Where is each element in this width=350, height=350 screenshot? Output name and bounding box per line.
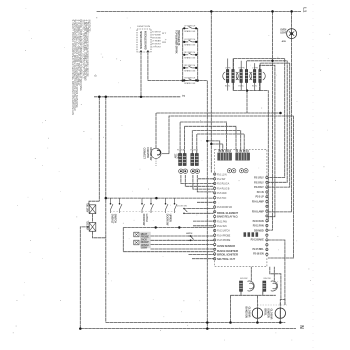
switch ladder (top burner switches) (183, 27, 198, 81)
wire switch ladder right rail (197, 28, 199, 80)
svg-text:UPPER: UPPER (169, 214, 173, 222)
wire broil igniter drop (279, 303, 281, 323)
svg-text:RR SWITCH: RR SWITCH (184, 65, 196, 67)
svg-text:RF SWITCH: RF SWITCH (184, 52, 196, 54)
wire plug pin row 4 (197, 175, 213, 192)
wire pin row 7 stub (197, 201, 214, 203)
wire bake igniter drop (256, 295, 258, 322)
node bus B V1 (98, 96, 101, 99)
wire connector feed 2 (211, 144, 223, 151)
wire plug lead 2 (185, 126, 236, 153)
svg-text:1100W: 1100W (141, 247, 148, 250)
module pin labels (152, 32, 167, 49)
svg-text:SPARK IGN: SPARK IGN (184, 30, 196, 33)
svg-text:PLUG B: PLUG B (191, 150, 199, 152)
door switch left (177, 205, 188, 214)
svg-text:P2-6 LAMP: P2-6 LAMP (252, 201, 264, 204)
control board relay rects (244, 232, 259, 237)
control board pin labels (217, 174, 264, 261)
svg-text:P1-12 IGN: P1-12 IGN (217, 226, 227, 228)
lamp oven light (280, 29, 296, 43)
wire right riser to pin (268, 240, 285, 305)
svg-text:DSI MOD: DSI MOD (254, 229, 264, 232)
svg-text:N: N (298, 325, 304, 329)
wire ladder return riser (206, 81, 208, 323)
control board dashed box (215, 149, 267, 266)
svg-text:LATCH: LATCH (186, 232, 193, 235)
svg-text:P1-15 PROBE: P1-15 PROBE (217, 240, 231, 242)
broil igniter (263, 308, 285, 320)
svg-text:RT PR: RT PR (239, 67, 245, 69)
node lower bus link top (206, 321, 209, 324)
plug block outside group 1 (179, 154, 188, 174)
notes text block (rotated service notes) (71, 20, 91, 115)
svg-text:P1-5 GND: P1-5 GND (217, 193, 227, 195)
wire connector feed from riser (207, 141, 219, 151)
fuse 1 (86, 203, 96, 214)
wire V2 long (105, 97, 107, 323)
svg-text:GROUND: GROUND (152, 38, 161, 40)
wire probe loop left (122, 228, 124, 252)
svg-text:OVEN SENSOR: OVEN SENSOR (217, 246, 236, 248)
wire branch bottom return (93, 231, 106, 238)
wire pin row 18 stub (192, 258, 214, 260)
svg-text:LF SWITCH: LF SWITCH (184, 25, 196, 27)
wire probe row 4 (151, 248, 214, 250)
svg-text:GLO-BAR: GLO-BAR (269, 309, 273, 320)
svg-text:P2-16 IGN: P2-16 IGN (253, 253, 264, 256)
wire bus B (94, 96, 180, 98)
svg-text:SPARK IGN: SPARK IGN (184, 44, 196, 47)
wire switch ladder left rail (182, 28, 184, 80)
spark igniter group 2 (236, 70, 251, 83)
wire L1 drop to control connector (210, 11, 212, 172)
wire igniter loop (280, 300, 285, 306)
svg-text:TCO 250F: TCO 250F (86, 221, 89, 231)
wire pin row 17 stub (189, 254, 214, 256)
svg-text:LIGHT: LIGHT (280, 32, 287, 34)
wire loop bottom riser (260, 91, 269, 222)
node bus B module (140, 96, 143, 99)
wire plug lead 1 (180, 122, 227, 154)
plug block inside group 2 (236, 150, 250, 173)
wire plug pin row 2 (185, 175, 213, 186)
svg-text:>: > (165, 37, 167, 41)
svg-text:P2-8 LAMP: P2-8 LAMP (252, 210, 264, 213)
svg-text:P1-11 FAN: P1-11 FAN (217, 220, 227, 223)
wire branch to neutral riser (80, 227, 89, 329)
node L1-bus right (271, 10, 274, 13)
svg-text:GLO-BAR: GLO-BAR (247, 307, 251, 318)
wire fan feed (156, 113, 281, 148)
svg-text:MODULE BOARD: MODULE BOARD (143, 31, 146, 50)
svg-text:SWITCH: SWITCH (114, 214, 118, 223)
node ladder left foot (182, 79, 184, 81)
svg-text:P2-4 N: P2-4 N (257, 191, 264, 194)
thermostat switch group 2 (141, 198, 153, 226)
svg-text:LT REAR: LT REAR (152, 40, 162, 43)
svg-text:SPARK IGN: SPARK IGN (184, 56, 196, 59)
svg-text:DOOR SW: DOOR SW (177, 205, 187, 207)
node ladder right foot (197, 79, 199, 81)
wire relay bus 2 (247, 60, 287, 62)
svg-text:BROIL IGNITER: BROIL IGNITER (217, 254, 238, 257)
ladder row labels (184, 25, 196, 85)
wire plug pin row 3 (193, 175, 214, 189)
switch row 1 (183, 27, 198, 29)
wire module pin 2 drop (147, 52, 149, 81)
wire probe bus top (123, 227, 213, 229)
fuse 2 (86, 221, 96, 232)
svg-text:115V: 115V (174, 154, 177, 159)
node probe bus b (178, 226, 180, 228)
node branch tap (87, 226, 89, 228)
svg-text:IGNITION: IGNITION (137, 26, 151, 28)
svg-text:MOTOR 2W: MOTOR 2W (149, 148, 153, 161)
wire relay pair3 loop (260, 65, 275, 216)
wire relay loop left (233, 59, 235, 91)
svg-text:P1-2 SW: P1-2 SW (217, 179, 226, 181)
wire relay drop 1 (268, 59, 285, 178)
node fan bus end (279, 112, 282, 115)
node branch neutral (79, 327, 82, 330)
wire link lower buses (206, 323, 208, 329)
svg-text:P2-5 LP: P2-5 LP (255, 196, 264, 199)
wire probe row 2 (151, 239, 214, 241)
node riser feed (206, 140, 208, 142)
node relay center (246, 89, 248, 91)
ladder contact terminal dots (183, 27, 197, 81)
node module pin b (147, 50, 149, 52)
svg-text:RR: RR (162, 42, 167, 44)
svg-text:P1-4 PLUG B: P1-4 PLUG B (217, 188, 230, 190)
svg-text:P2-2 RLY: P2-2 RLY (254, 181, 264, 184)
svg-text:TOD 120V: TOD 120V (86, 203, 89, 213)
node probe bus a (155, 226, 157, 228)
wire L1 feed top (97, 10, 301, 12)
latch switch left (186, 232, 194, 241)
svg-text:TB SWITCH: TB SWITCH (184, 78, 196, 80)
wire plug pin row 1 (181, 175, 214, 184)
node lower bus link bottom (206, 327, 209, 330)
wire plug lead 4 (197, 134, 244, 154)
svg-text:SWITCHES (4): SWITCHES (4) (177, 30, 181, 46)
node lamp tap (290, 10, 293, 13)
wire igniter 1 top (250, 267, 252, 281)
wire left branch top (89, 201, 99, 204)
svg-text:NEUTRAL OUT: NEUTRAL OUT (217, 258, 236, 261)
plug block outside group 2 (191, 154, 200, 174)
igniter switch 1 (240, 278, 255, 291)
spark igniter group 3 (250, 70, 265, 83)
igniter switch 2 (263, 278, 278, 291)
wire V1 (98, 97, 100, 201)
thermostat switch group 1 (110, 198, 122, 224)
wire thermostat bus (106, 197, 214, 199)
wire relay bus 1 (234, 58, 285, 60)
fan convection motor (143, 148, 180, 167)
svg-text:SPARK IGN: SPARK IGN (184, 82, 196, 85)
wire relay bus 3 (260, 62, 289, 64)
svg-text:P2-3 RLY: P2-3 RLY (254, 186, 264, 189)
bake igniter (244, 307, 262, 319)
svg-text:IGN SW: IGN SW (240, 278, 247, 280)
thermostat switch group 3 (165, 198, 177, 226)
svg-text:SPARK IGN: SPARK IGN (184, 70, 196, 73)
module SPARK MODULE box (137, 26, 151, 52)
svg-text:P1-8 DOOR SW: P1-8 DOOR SW (217, 207, 233, 209)
connector P2 right pin column (266, 176, 268, 255)
wire neutral bottom (80, 328, 296, 330)
svg-text:CT PR: CT PR (252, 67, 259, 69)
wire relay drop 2 (268, 61, 287, 183)
node thermostat tap (105, 197, 108, 200)
node bus2 tap (271, 60, 273, 62)
wire igniter 1 bottom (240, 291, 242, 295)
wire igniter 2 bottom (262, 291, 264, 295)
wire oven light lamp return (268, 39, 292, 212)
svg-text:P1-13 LATCH: P1-13 LATCH (217, 230, 230, 233)
wire igniter stubs (228, 59, 260, 91)
wire ladder bottom feed (148, 80, 207, 82)
svg-text:P2-15 BRL: P2-15 BRL (252, 248, 264, 251)
svg-text:SPARK IGNITION: SPARK IGNITION (139, 31, 142, 49)
svg-text:L1: L1 (302, 7, 307, 13)
wire igniter 2 top (273, 267, 275, 281)
wire fuse link (92, 214, 94, 223)
probe receptacle (134, 232, 151, 250)
node broil drop (279, 321, 282, 324)
wire relay drop 3 (268, 63, 290, 187)
wire relay loop bottom (234, 90, 260, 92)
svg-text:P1-14 PROBE: P1-14 PROBE (217, 235, 231, 237)
wire drop to right bus (268, 11, 273, 230)
switch row 3 (183, 53, 198, 55)
wire module pin 1 drop (140, 52, 142, 97)
linkage dashed (110, 211, 177, 213)
wire probe row 3 (151, 244, 214, 246)
node bus B V2 (105, 96, 108, 99)
svg-text:TOP BURNER: TOP BURNER (152, 35, 161, 37)
wire probe bus bottom (123, 251, 213, 253)
wire switch row 1 (188, 208, 214, 210)
spark igniter labels (225, 67, 259, 87)
svg-text:RT FRONT: RT FRONT (152, 44, 162, 46)
switch row 4 (183, 66, 198, 68)
svg-text:P1-6 TCO: P1-6 TCO (217, 198, 226, 200)
node riser feed 2 (210, 143, 212, 145)
wire pin row 2 stub (198, 178, 214, 180)
svg-text:2: 2 (182, 95, 186, 97)
svg-text:P2-13 BAKE: P2-13 BAKE (251, 238, 264, 241)
wire switch row 2 (188, 212, 214, 214)
node L1-drop (210, 10, 213, 13)
svg-text:LT FRONT: LT FRONT (152, 47, 162, 49)
wire oven light lamp feed (291, 11, 293, 28)
svg-text:PLUG A: PLUG A (177, 149, 185, 152)
node bake drop (256, 321, 259, 324)
svg-text:P1-1 L1 IN: P1-1 L1 IN (217, 174, 227, 176)
wire plug lead 3 (192, 131, 240, 154)
node thermostat mid (155, 197, 158, 200)
plug block inside group 1 (218, 150, 236, 173)
wire relay center drop (246, 91, 248, 113)
svg-text:TO SWITCH: TO SWITCH (152, 32, 161, 34)
svg-text:P2-11 FAN: P2-11 FAN (253, 225, 264, 228)
wire pin row 11 stub (193, 225, 214, 227)
wire bake feed corner (270, 267, 281, 300)
svg-text:P2-1 RLY: P2-1 RLY (254, 177, 264, 180)
svg-text:P2-10 FAN: P2-10 FAN (253, 220, 264, 223)
svg-text:OVEN: OVEN (280, 30, 286, 32)
svg-text:IGN SW: IGN SW (263, 278, 270, 280)
switch row 2 (183, 40, 198, 42)
svg-text:LATCH: LATCH (145, 214, 149, 222)
node igniter drop (229, 321, 232, 324)
wire igniter return drop (230, 295, 232, 322)
wire igniter return bus (231, 294, 276, 296)
wire lower bus (106, 322, 285, 324)
node module pin a (140, 50, 142, 52)
wire pin row 10 stub (193, 220, 214, 222)
wire fan return (169, 116, 294, 258)
wire probe row 1 (151, 235, 214, 237)
wire igniter dashed link (257, 304, 287, 306)
svg-text:BAKE RELAY N.O.: BAKE RELAY N.O. (217, 215, 238, 218)
svg-text:LR SWITCH: LR SWITCH (184, 39, 196, 41)
svg-text:P1-3 PLUG A: P1-3 PLUG A (217, 183, 230, 186)
svg-text:5. VERIFY PROPER OPERATION AFT: 5. VERIFY PROPER OPERATION AFTER SERVICI… (71, 20, 74, 115)
spark igniter group 1 (223, 70, 238, 83)
connector P1 left pin column (214, 173, 216, 260)
switch row 5 (183, 79, 198, 81)
